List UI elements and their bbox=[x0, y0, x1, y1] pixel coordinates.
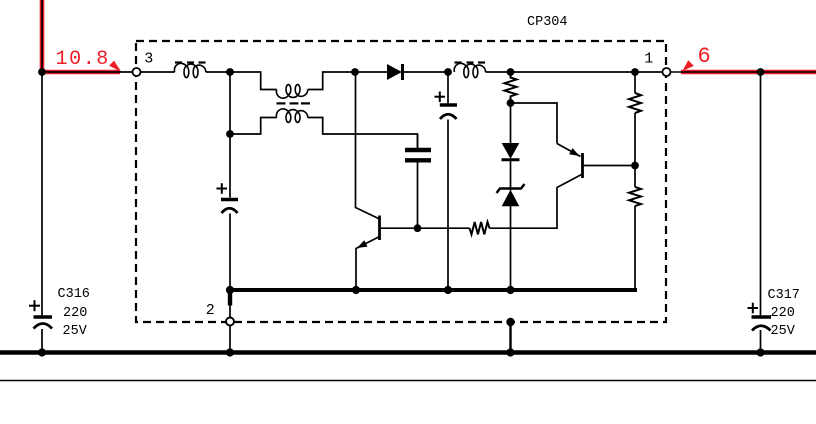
pin 2 terminal bbox=[226, 318, 234, 326]
resistor R2 bbox=[629, 93, 641, 113]
junction on dashed border bbox=[506, 318, 514, 326]
transistor Q1 emitter diagonal bbox=[356, 237, 380, 291]
wire: node E to pin 1 bbox=[635, 71, 663, 73]
black core of red output wire bbox=[671, 71, 816, 73]
capacitor C3 plate top bbox=[405, 148, 431, 152]
transformer T1 secondary winding bbox=[276, 109, 307, 123]
capacitor C3 plate bottom bbox=[405, 158, 431, 162]
junction node A bbox=[226, 68, 234, 76]
wire: C317 to ground bbox=[760, 330, 762, 353]
capacitor C316 curved plate bbox=[34, 324, 53, 329]
resistor R3 bbox=[629, 187, 641, 206]
capacitor C317 plate bbox=[752, 315, 772, 318]
junction node B bbox=[351, 68, 359, 76]
plus sign C2 bbox=[435, 92, 446, 103]
svg-text:220: 220 bbox=[771, 306, 795, 321]
junction ground C317 bbox=[756, 348, 764, 356]
junction bus C2 bbox=[444, 286, 452, 294]
transistor Q1 collector diagonal bbox=[356, 72, 380, 219]
diode D2 bbox=[502, 144, 520, 160]
core of transformer T1 bbox=[277, 102, 311, 104]
wire: C3 to Q1 base node bbox=[417, 162, 419, 228]
junction node D bbox=[507, 68, 515, 76]
wire: secondary left end to node at 230,134 bbox=[230, 118, 277, 135]
pin 3 terminal bbox=[133, 68, 141, 76]
pin 1 terminal bbox=[663, 68, 671, 76]
junction node F on output bbox=[757, 68, 765, 76]
junction bus left bbox=[226, 286, 234, 294]
capacitor C2 plate bbox=[440, 103, 457, 106]
capacitor C2 curved plate bbox=[440, 114, 457, 119]
wire: coupling cap branch upper bbox=[417, 134, 419, 149]
wire: R1 to diode D2 bbox=[510, 103, 512, 144]
wire: border pin to ground rail bbox=[509, 322, 511, 353]
junction ground C316 bbox=[38, 348, 46, 356]
zener diode ZD1 bbox=[497, 184, 525, 206]
junction node at input bbox=[38, 68, 46, 76]
wire: ZD1 to ground through bus bbox=[510, 206, 512, 291]
wire: D1 to node C bbox=[404, 71, 449, 73]
wire: Q2 base to node at R2/R3 bbox=[584, 165, 636, 167]
wire: R4 to Q1 base bbox=[381, 227, 470, 229]
svg-text:1: 1 bbox=[644, 51, 653, 68]
capacitor C316 plate bbox=[34, 315, 53, 318]
wire: C316 branch lower bbox=[41, 329, 43, 353]
inductor L2 bbox=[454, 63, 485, 77]
capacitor C1 curved plate bbox=[222, 208, 238, 213]
chassis baseline bbox=[0, 380, 816, 382]
red arrow at pin 3 bbox=[109, 61, 121, 72]
wire: R3 to internal bus corner bbox=[634, 206, 636, 290]
transistor Q1 base bar bbox=[378, 216, 381, 241]
red arrow at pin 1 bbox=[683, 60, 694, 71]
wire: R2 to R3 bbox=[634, 113, 636, 187]
wire: node E down through R2 bbox=[634, 72, 636, 93]
junction Q2 base bbox=[631, 162, 639, 170]
junction R1/Q2 emitter bbox=[507, 99, 515, 107]
svg-text:25V: 25V bbox=[771, 324, 796, 339]
wire: node C down to filter cap C2 bbox=[447, 72, 449, 103]
svg-text:220: 220 bbox=[63, 306, 87, 321]
junction ground center bbox=[506, 348, 514, 356]
wire: output node to C317 bbox=[760, 72, 762, 316]
junction bus ZD1 bbox=[506, 286, 514, 294]
transistor Q1 emitter arrow bbox=[357, 240, 368, 248]
core of L1 bbox=[175, 61, 206, 63]
svg-text:C317: C317 bbox=[768, 288, 800, 303]
resistor R4 bbox=[469, 222, 489, 234]
svg-text:CP304: CP304 bbox=[527, 15, 568, 30]
wire: pin 2 to ground rail bbox=[229, 326, 231, 353]
junction node E bbox=[631, 68, 639, 76]
capacitor C1 plate bbox=[221, 198, 238, 201]
inductor L1 bbox=[174, 63, 205, 77]
junction bus Q1 emitter bbox=[352, 286, 360, 294]
wire: node A through transformer primary top path bbox=[230, 72, 355, 90]
wire: C316 branch upper bbox=[41, 72, 43, 316]
wire: node D to node E bbox=[511, 71, 636, 73]
wire: node B to diode D1 bbox=[355, 71, 388, 73]
resistor R1 bbox=[505, 72, 517, 103]
diode D1 bbox=[388, 64, 403, 80]
wire: node to pin 3 bbox=[42, 71, 133, 73]
plus sign C1 bbox=[217, 183, 228, 194]
transistor Q2 emitter diagonal bbox=[557, 144, 581, 157]
transistor Q2 base bar bbox=[581, 153, 584, 178]
wire: input vertical under red bbox=[41, 0, 43, 72]
svg-text:C316: C316 bbox=[58, 287, 90, 302]
capacitor C317 curved plate bbox=[752, 326, 771, 331]
wire: node after R1 to Q2 emitter bbox=[511, 103, 558, 144]
svg-text:3: 3 bbox=[144, 51, 153, 68]
wire: D2 to zener ZD1 bbox=[510, 161, 512, 191]
plus sign C317 bbox=[748, 303, 759, 314]
ground rail (thick bottom bus) bbox=[0, 350, 816, 354]
wire: L1 to node A bbox=[206, 71, 230, 73]
svg-text:25V: 25V bbox=[63, 324, 88, 339]
thick pin2 stub from bus bbox=[228, 290, 232, 306]
junction Q1 base bbox=[414, 224, 422, 232]
transistor Q2 emitter arrow bbox=[569, 148, 579, 156]
junction node C bbox=[444, 68, 452, 76]
wire: C1 to internal bus bbox=[229, 214, 231, 318]
svg-text:2: 2 bbox=[206, 302, 215, 319]
svg-text:6: 6 bbox=[698, 44, 711, 69]
wire: node A down to secondary tap and reservoir cap bbox=[229, 72, 231, 198]
internal ground bus (thick) bbox=[230, 288, 637, 292]
wire: secondary right end to coupling cap bbox=[308, 118, 418, 149]
module CP304 dashed outline bbox=[136, 41, 666, 322]
red highlighted output wire (6V) bbox=[681, 70, 816, 75]
wire: C2 to internal bus bbox=[447, 120, 449, 291]
transistor Q2 collector diagonal bbox=[490, 175, 582, 229]
core of L2 bbox=[455, 61, 486, 63]
junction ground pin2 bbox=[226, 348, 234, 356]
wire: pin 3 to L1 bbox=[141, 71, 175, 73]
plus sign C316 bbox=[29, 300, 40, 311]
red highlighted input wire (10.8V feed, vertical + horizontal) bbox=[42, 0, 120, 72]
svg-text:10.8: 10.8 bbox=[56, 48, 110, 71]
junction secondary tap bbox=[226, 130, 234, 138]
transformer T1 primary winding bbox=[276, 85, 307, 99]
wire: L2 to node D bbox=[486, 71, 511, 73]
